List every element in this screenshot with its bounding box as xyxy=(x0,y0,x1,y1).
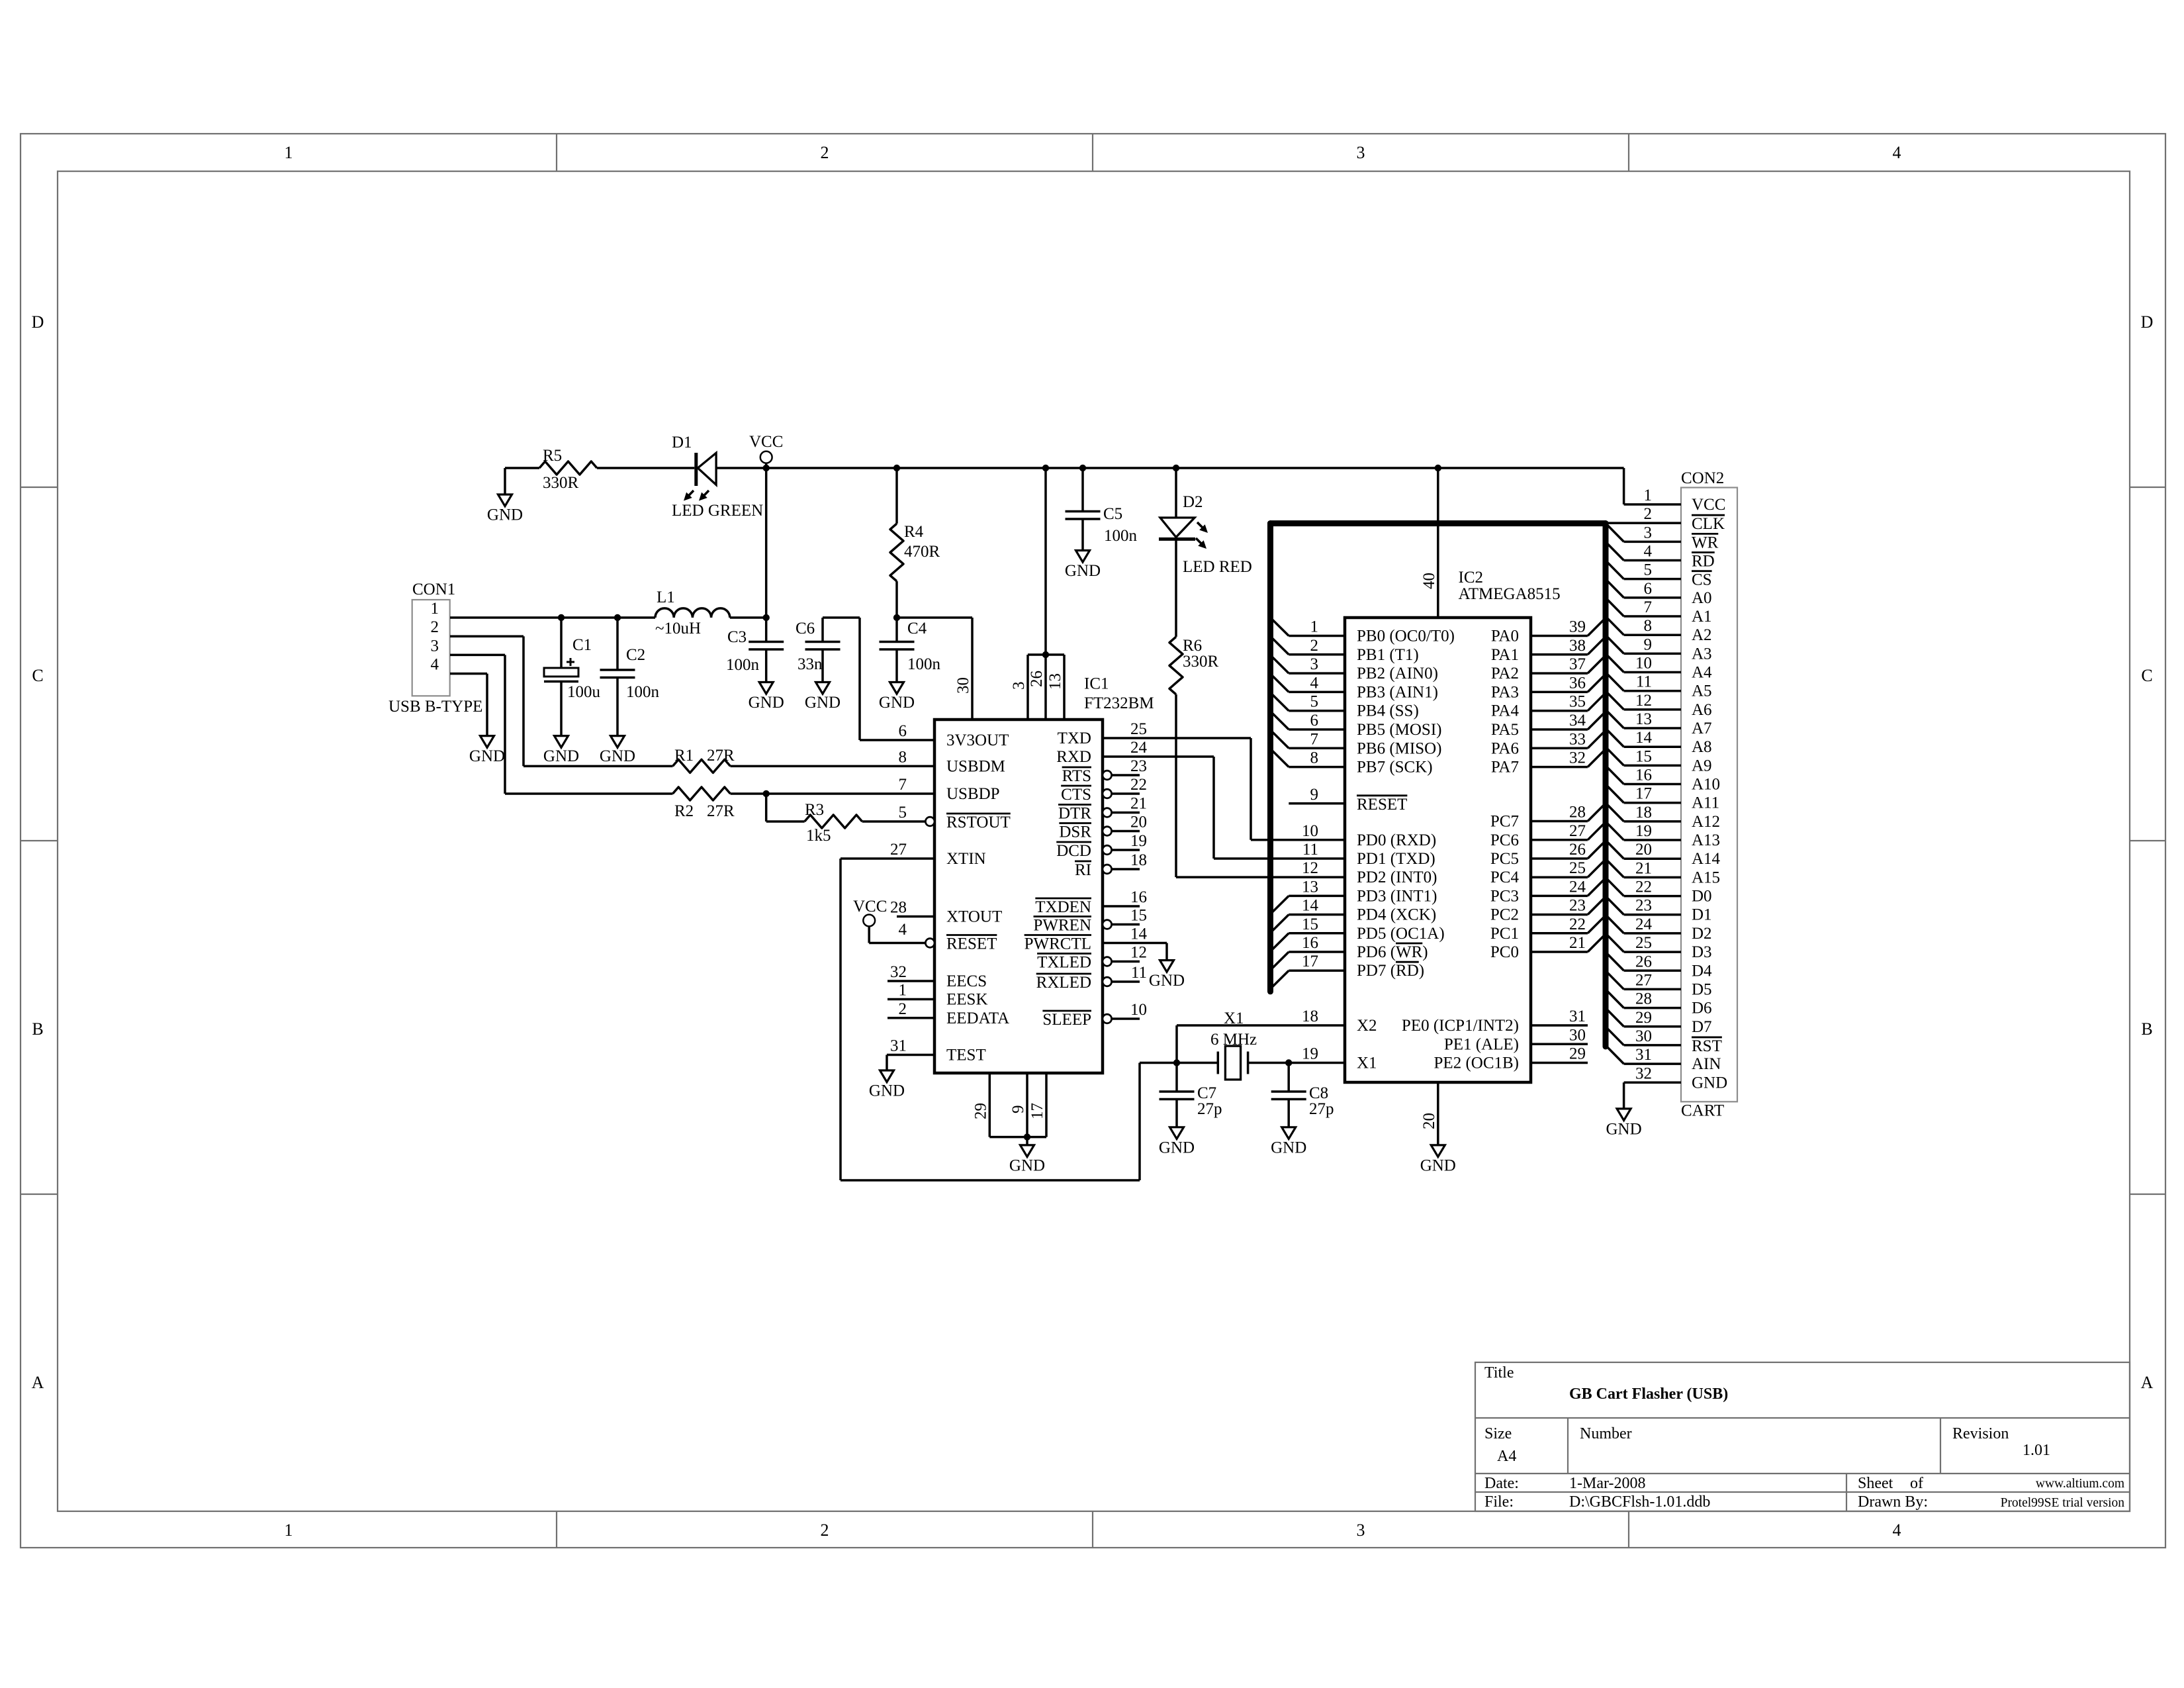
svg-text:GND: GND xyxy=(1692,1074,1727,1092)
svg-text:12: 12 xyxy=(1302,859,1318,877)
svg-text:EESK: EESK xyxy=(946,991,988,1009)
svg-text:Title: Title xyxy=(1484,1364,1514,1382)
svg-text:330R: 330R xyxy=(543,474,579,492)
svg-text:3V3OUT: 3V3OUT xyxy=(946,731,1009,749)
svg-text:PA3: PA3 xyxy=(1491,683,1519,701)
svg-text:D2: D2 xyxy=(1692,925,1712,943)
svg-text:R5: R5 xyxy=(543,447,562,465)
svg-text:GND: GND xyxy=(1149,972,1185,990)
svg-text:Sheet: Sheet xyxy=(1858,1475,1893,1492)
svg-text:FT232BM: FT232BM xyxy=(1084,694,1154,712)
svg-text:RTS: RTS xyxy=(1062,767,1091,785)
svg-text:GND: GND xyxy=(543,747,579,765)
svg-text:3: 3 xyxy=(1644,524,1653,541)
svg-text:15: 15 xyxy=(1302,915,1318,933)
svg-text:R2: R2 xyxy=(674,802,694,820)
svg-text:6: 6 xyxy=(1310,712,1319,729)
svg-text:15: 15 xyxy=(1130,907,1147,925)
svg-text:20: 20 xyxy=(1130,814,1147,831)
svg-text:A12: A12 xyxy=(1692,813,1720,831)
svg-text:18: 18 xyxy=(1635,804,1652,821)
svg-text:26: 26 xyxy=(1635,953,1652,970)
svg-text:4: 4 xyxy=(1644,543,1653,561)
svg-text:29: 29 xyxy=(972,1103,989,1119)
svg-text:26: 26 xyxy=(1028,671,1046,687)
svg-text:12: 12 xyxy=(1130,944,1147,962)
svg-text:8: 8 xyxy=(1644,617,1653,635)
svg-text:C8: C8 xyxy=(1309,1084,1328,1102)
svg-text:VCC: VCC xyxy=(1692,496,1725,514)
svg-text:3: 3 xyxy=(1357,143,1365,162)
svg-text:3: 3 xyxy=(1010,682,1028,690)
svg-text:PD5 (OC1A): PD5 (OC1A) xyxy=(1357,925,1445,943)
svg-text:~10uH: ~10uH xyxy=(655,620,701,637)
svg-text:CON1: CON1 xyxy=(412,581,455,598)
svg-text:9: 9 xyxy=(1644,635,1653,653)
svg-text:A3: A3 xyxy=(1692,645,1712,663)
svg-text:C: C xyxy=(2141,666,2152,685)
svg-text:40: 40 xyxy=(1420,573,1438,589)
svg-text:6 MHz: 6 MHz xyxy=(1210,1031,1257,1049)
svg-text:C7: C7 xyxy=(1197,1084,1216,1102)
svg-text:27R: 27R xyxy=(707,802,735,820)
svg-text:33: 33 xyxy=(1569,730,1586,748)
svg-text:RESET: RESET xyxy=(1357,796,1407,814)
svg-text:27R: 27R xyxy=(707,747,735,765)
svg-text:PD3 (INT1): PD3 (INT1) xyxy=(1357,887,1437,905)
svg-text:4: 4 xyxy=(1893,1521,1901,1540)
svg-text:C5: C5 xyxy=(1103,505,1122,523)
svg-text:A: A xyxy=(2141,1373,2154,1392)
svg-text:PC5: PC5 xyxy=(1490,850,1519,868)
svg-text:32: 32 xyxy=(1569,749,1586,767)
svg-text:CON2: CON2 xyxy=(1681,469,1724,487)
svg-text:PD2 (INT0): PD2 (INT0) xyxy=(1357,868,1437,886)
svg-text:X1: X1 xyxy=(1357,1055,1377,1072)
svg-text:470R: 470R xyxy=(904,543,940,561)
svg-text:PD6 (WR): PD6 (WR) xyxy=(1357,943,1428,961)
svg-text:GND: GND xyxy=(869,1082,905,1100)
svg-text:PA2: PA2 xyxy=(1491,665,1519,682)
svg-text:31: 31 xyxy=(890,1037,907,1055)
svg-text:17: 17 xyxy=(1028,1103,1046,1119)
svg-text:31: 31 xyxy=(1569,1008,1586,1025)
svg-text:A14: A14 xyxy=(1692,850,1721,868)
svg-text:37: 37 xyxy=(1569,655,1586,673)
svg-text:28: 28 xyxy=(890,899,907,917)
svg-text:4: 4 xyxy=(1310,674,1319,692)
svg-text:19: 19 xyxy=(1302,1045,1318,1063)
svg-text:PA5: PA5 xyxy=(1491,721,1519,739)
svg-text:26: 26 xyxy=(1569,841,1586,859)
svg-text:D0: D0 xyxy=(1692,888,1712,906)
svg-text:A4: A4 xyxy=(1497,1448,1516,1465)
svg-text:D7: D7 xyxy=(1692,1018,1712,1036)
svg-text:PC6: PC6 xyxy=(1490,831,1519,849)
svg-text:GND: GND xyxy=(1606,1120,1642,1138)
svg-text:PB0 (OC0/T0): PB0 (OC0/T0) xyxy=(1357,628,1455,645)
svg-text:3: 3 xyxy=(431,637,439,655)
svg-text:4: 4 xyxy=(1893,143,1901,162)
svg-text:GB Cart Flasher (USB): GB Cart Flasher (USB) xyxy=(1569,1385,1728,1403)
svg-text:33n: 33n xyxy=(797,655,823,673)
svg-text:3: 3 xyxy=(1357,1521,1365,1540)
svg-text:PC1: PC1 xyxy=(1490,925,1519,943)
svg-text:22: 22 xyxy=(1569,915,1586,933)
svg-text:PE0 (ICP1/INT2): PE0 (ICP1/INT2) xyxy=(1402,1017,1519,1035)
svg-text:32: 32 xyxy=(890,963,907,981)
svg-text:VCC: VCC xyxy=(853,898,887,915)
svg-text:A4: A4 xyxy=(1692,664,1712,682)
svg-text:WR: WR xyxy=(1692,534,1719,551)
svg-text:A: A xyxy=(32,1373,44,1392)
svg-text:24: 24 xyxy=(1635,915,1653,933)
svg-text:7: 7 xyxy=(899,776,907,794)
svg-text:A1: A1 xyxy=(1692,608,1712,626)
svg-text:11: 11 xyxy=(1636,673,1652,691)
svg-text:4: 4 xyxy=(431,656,439,674)
svg-text:TEST: TEST xyxy=(946,1047,986,1064)
svg-text:PA1: PA1 xyxy=(1491,646,1519,664)
svg-text:1: 1 xyxy=(285,143,293,162)
svg-text:C1: C1 xyxy=(572,636,592,654)
svg-text:D3: D3 xyxy=(1692,943,1712,961)
svg-text:GND: GND xyxy=(1271,1139,1306,1156)
svg-text:17: 17 xyxy=(1635,785,1652,803)
svg-text:RD: RD xyxy=(1692,553,1715,571)
svg-text:Protel99SE trial version: Protel99SE trial version xyxy=(2001,1496,2125,1510)
svg-text:18: 18 xyxy=(1302,1008,1318,1025)
svg-text:8: 8 xyxy=(1310,749,1319,767)
svg-text:17: 17 xyxy=(1302,953,1318,970)
svg-text:32: 32 xyxy=(1635,1064,1652,1082)
svg-text:RXD: RXD xyxy=(1056,748,1091,766)
svg-text:24: 24 xyxy=(1130,739,1148,757)
svg-text:9: 9 xyxy=(1310,786,1319,804)
svg-text:X2: X2 xyxy=(1357,1017,1377,1035)
svg-text:28: 28 xyxy=(1635,990,1652,1008)
svg-text:1k5: 1k5 xyxy=(806,827,831,845)
svg-text:3: 3 xyxy=(1310,655,1319,673)
svg-text:GND: GND xyxy=(805,694,841,712)
svg-text:PB7 (SCK): PB7 (SCK) xyxy=(1357,759,1433,776)
svg-text:2: 2 xyxy=(899,1000,907,1018)
svg-text:LED RED: LED RED xyxy=(1183,558,1252,576)
svg-text:330R: 330R xyxy=(1183,653,1219,671)
svg-text:Number: Number xyxy=(1580,1425,1632,1442)
svg-text:A13: A13 xyxy=(1692,831,1720,849)
svg-text:A2: A2 xyxy=(1692,626,1712,644)
svg-text:7: 7 xyxy=(1310,730,1319,748)
svg-text:34: 34 xyxy=(1569,712,1586,729)
svg-text:18: 18 xyxy=(1130,851,1147,869)
svg-text:GND: GND xyxy=(879,694,915,712)
svg-text:PB4 (SS): PB4 (SS) xyxy=(1357,702,1419,720)
svg-text:38: 38 xyxy=(1569,637,1586,655)
svg-text:GND: GND xyxy=(487,506,523,524)
svg-text:XTOUT: XTOUT xyxy=(946,908,1002,926)
svg-text:7: 7 xyxy=(1644,598,1653,616)
svg-text:Date:: Date: xyxy=(1484,1475,1519,1492)
svg-text:EECS: EECS xyxy=(946,972,987,990)
svg-text:GND: GND xyxy=(749,694,784,712)
svg-text:1: 1 xyxy=(285,1521,293,1540)
svg-text:100n: 100n xyxy=(626,683,660,701)
svg-text:D: D xyxy=(32,312,44,332)
svg-text:www.altium.com: www.altium.com xyxy=(2036,1477,2124,1491)
svg-text:19: 19 xyxy=(1130,832,1147,850)
svg-text:1: 1 xyxy=(1644,487,1653,504)
svg-text:C3: C3 xyxy=(727,628,747,646)
svg-text:RESET: RESET xyxy=(946,935,997,953)
svg-text:27: 27 xyxy=(1569,822,1586,840)
svg-text:PD7 (RD): PD7 (RD) xyxy=(1357,962,1424,980)
svg-text:1-Mar-2008: 1-Mar-2008 xyxy=(1569,1475,1646,1492)
svg-text:LED GREEN: LED GREEN xyxy=(672,502,763,520)
svg-text:21: 21 xyxy=(1635,859,1652,877)
svg-text:RI: RI xyxy=(1075,861,1091,879)
svg-text:of: of xyxy=(1910,1475,1923,1492)
svg-text:21: 21 xyxy=(1569,934,1586,952)
svg-text:2: 2 xyxy=(821,143,829,162)
svg-text:29: 29 xyxy=(1569,1045,1586,1063)
svg-text:39: 39 xyxy=(1569,618,1586,636)
svg-text:28: 28 xyxy=(1569,804,1586,821)
svg-text:8: 8 xyxy=(899,748,907,766)
svg-text:15: 15 xyxy=(1635,747,1652,765)
svg-text:R6: R6 xyxy=(1183,637,1202,655)
svg-text:Drawn By:: Drawn By: xyxy=(1858,1493,1928,1511)
svg-text:2: 2 xyxy=(431,618,439,636)
svg-text:PC0: PC0 xyxy=(1490,943,1519,961)
svg-text:23: 23 xyxy=(1635,897,1652,915)
svg-text:PC7: PC7 xyxy=(1490,813,1519,831)
svg-text:RST: RST xyxy=(1692,1037,1722,1055)
svg-text:PB5 (MOSI): PB5 (MOSI) xyxy=(1357,721,1442,739)
svg-text:IC2: IC2 xyxy=(1459,569,1484,586)
svg-text:GND: GND xyxy=(469,747,505,765)
svg-text:A7: A7 xyxy=(1692,720,1712,737)
svg-text:ATMEGA8515: ATMEGA8515 xyxy=(1459,585,1561,603)
svg-text:A10: A10 xyxy=(1692,776,1720,794)
svg-text:16: 16 xyxy=(1635,767,1652,784)
svg-text:C2: C2 xyxy=(626,646,645,664)
svg-text:USBDP: USBDP xyxy=(946,785,1000,803)
svg-text:A8: A8 xyxy=(1692,738,1712,756)
svg-text:PE2 (OC1B): PE2 (OC1B) xyxy=(1434,1055,1519,1072)
svg-text:10: 10 xyxy=(1635,655,1652,673)
svg-text:2: 2 xyxy=(1644,505,1653,523)
svg-text:D:\GBCFlsh-1.01.ddb: D:\GBCFlsh-1.01.ddb xyxy=(1569,1493,1710,1511)
svg-text:CART: CART xyxy=(1681,1102,1724,1120)
svg-text:A15: A15 xyxy=(1692,868,1720,886)
svg-text:D5: D5 xyxy=(1692,980,1712,998)
svg-text:PC4: PC4 xyxy=(1490,868,1520,886)
svg-text:R4: R4 xyxy=(904,523,924,541)
svg-text:19: 19 xyxy=(1635,822,1652,840)
svg-text:TXDEN: TXDEN xyxy=(1035,898,1091,916)
svg-text:R1: R1 xyxy=(674,747,694,765)
svg-text:GND: GND xyxy=(1065,562,1101,580)
svg-text:D1: D1 xyxy=(672,434,692,451)
svg-text:USB B-TYPE: USB B-TYPE xyxy=(388,698,482,716)
svg-text:16: 16 xyxy=(1302,934,1318,952)
svg-text:1.01: 1.01 xyxy=(2023,1442,2050,1459)
svg-text:25: 25 xyxy=(1130,720,1147,738)
svg-text:12: 12 xyxy=(1635,692,1652,710)
svg-text:29: 29 xyxy=(1635,1009,1652,1027)
svg-text:R3: R3 xyxy=(805,801,824,819)
svg-text:D: D xyxy=(2141,312,2154,332)
svg-text:TXD: TXD xyxy=(1058,729,1091,747)
svg-text:PD1 (TXD): PD1 (TXD) xyxy=(1357,850,1435,868)
svg-text:L1: L1 xyxy=(657,588,675,606)
svg-text:CTS: CTS xyxy=(1061,786,1091,804)
svg-text:GND: GND xyxy=(1159,1139,1195,1156)
svg-text:22: 22 xyxy=(1130,776,1147,794)
svg-text:CLK: CLK xyxy=(1692,515,1725,533)
svg-text:PA7: PA7 xyxy=(1491,759,1519,776)
svg-text:36: 36 xyxy=(1569,674,1586,692)
svg-text:10: 10 xyxy=(1130,1001,1147,1019)
svg-text:C6: C6 xyxy=(796,620,815,637)
svg-text:100n: 100n xyxy=(726,656,760,674)
svg-text:EEDATA: EEDATA xyxy=(946,1009,1009,1027)
svg-text:CS: CS xyxy=(1692,571,1712,589)
svg-text:A0: A0 xyxy=(1692,589,1712,607)
svg-text:A9: A9 xyxy=(1692,757,1712,774)
svg-text:2: 2 xyxy=(1310,637,1319,655)
svg-text:PB1 (T1): PB1 (T1) xyxy=(1357,646,1419,664)
svg-text:PWRCTL: PWRCTL xyxy=(1024,935,1091,953)
svg-text:9: 9 xyxy=(1009,1105,1027,1114)
svg-text:5: 5 xyxy=(1644,561,1653,579)
svg-text:20: 20 xyxy=(1420,1113,1438,1129)
svg-text:GND: GND xyxy=(1420,1156,1456,1174)
svg-text:USBDM: USBDM xyxy=(946,757,1005,775)
svg-text:GND: GND xyxy=(1009,1156,1045,1174)
svg-text:DSR: DSR xyxy=(1059,823,1091,841)
svg-text:XTIN: XTIN xyxy=(946,850,986,868)
svg-text:PWREN: PWREN xyxy=(1034,917,1092,935)
svg-text:A5: A5 xyxy=(1692,682,1712,700)
svg-text:11: 11 xyxy=(1131,964,1147,982)
svg-text:D6: D6 xyxy=(1692,1000,1712,1017)
svg-text:SLEEP: SLEEP xyxy=(1042,1011,1091,1029)
svg-text:PA6: PA6 xyxy=(1491,739,1519,757)
svg-text:AIN: AIN xyxy=(1692,1055,1721,1073)
svg-text:DTR: DTR xyxy=(1058,805,1091,823)
svg-text:PD4 (XCK): PD4 (XCK) xyxy=(1357,906,1436,924)
svg-text:14: 14 xyxy=(1635,729,1653,747)
svg-text:PE1 (ALE): PE1 (ALE) xyxy=(1444,1035,1519,1053)
svg-text:PD0 (RXD): PD0 (RXD) xyxy=(1357,831,1436,849)
svg-text:PB3 (AIN1): PB3 (AIN1) xyxy=(1357,683,1438,701)
svg-text:27: 27 xyxy=(890,841,907,859)
svg-text:Revision: Revision xyxy=(1952,1425,2009,1442)
svg-text:D2: D2 xyxy=(1183,493,1203,511)
svg-text:B: B xyxy=(2141,1019,2152,1039)
svg-text:11: 11 xyxy=(1302,841,1318,859)
svg-text:2: 2 xyxy=(821,1521,829,1540)
svg-text:21: 21 xyxy=(1130,795,1147,813)
svg-text:100n: 100n xyxy=(907,655,941,673)
svg-text:D4: D4 xyxy=(1692,962,1712,980)
svg-text:6: 6 xyxy=(899,722,907,740)
svg-text:1: 1 xyxy=(899,982,907,1000)
svg-text:TXLED: TXLED xyxy=(1037,954,1091,972)
svg-text:A6: A6 xyxy=(1692,701,1712,719)
svg-text:27: 27 xyxy=(1635,971,1652,989)
svg-text:5: 5 xyxy=(1310,693,1319,711)
svg-text:IC1: IC1 xyxy=(1084,675,1109,693)
svg-text:4: 4 xyxy=(899,921,907,939)
svg-text:A11: A11 xyxy=(1692,794,1719,812)
svg-text:D1: D1 xyxy=(1692,906,1712,924)
svg-text:27p: 27p xyxy=(1309,1100,1334,1118)
svg-text:1: 1 xyxy=(1310,618,1319,636)
svg-text:PA4: PA4 xyxy=(1491,702,1520,720)
svg-text:RSTOUT: RSTOUT xyxy=(946,814,1011,831)
svg-text:13: 13 xyxy=(1302,878,1318,896)
svg-text:13: 13 xyxy=(1635,710,1652,728)
svg-text:27p: 27p xyxy=(1197,1100,1222,1118)
svg-text:5: 5 xyxy=(899,804,907,821)
svg-text:C: C xyxy=(32,666,43,685)
svg-text:VCC: VCC xyxy=(749,433,783,451)
svg-text:23: 23 xyxy=(1569,897,1586,915)
svg-text:100u: 100u xyxy=(567,683,601,701)
svg-text:GND: GND xyxy=(600,747,635,765)
svg-text:DCD: DCD xyxy=(1056,842,1091,860)
svg-text:File:: File: xyxy=(1484,1493,1514,1511)
svg-text:10: 10 xyxy=(1302,822,1318,840)
svg-text:PA0: PA0 xyxy=(1491,628,1519,645)
svg-text:14: 14 xyxy=(1302,897,1319,915)
svg-text:23: 23 xyxy=(1130,757,1147,775)
svg-text:16: 16 xyxy=(1130,888,1147,906)
svg-text:6: 6 xyxy=(1644,580,1653,598)
svg-text:22: 22 xyxy=(1635,878,1652,896)
svg-text:C4: C4 xyxy=(907,620,927,637)
svg-text:30: 30 xyxy=(1569,1026,1586,1044)
svg-text:PC3: PC3 xyxy=(1490,887,1519,905)
svg-text:35: 35 xyxy=(1569,693,1586,711)
svg-text:30: 30 xyxy=(954,677,972,694)
svg-text:PB2 (AIN0): PB2 (AIN0) xyxy=(1357,665,1438,682)
svg-text:30: 30 xyxy=(1635,1027,1652,1045)
svg-text:B: B xyxy=(32,1019,43,1039)
svg-text:24: 24 xyxy=(1569,878,1586,896)
svg-text:13: 13 xyxy=(1046,673,1064,690)
svg-text:25: 25 xyxy=(1569,859,1586,877)
svg-text:1: 1 xyxy=(431,600,439,618)
svg-text:100n: 100n xyxy=(1104,527,1138,545)
svg-text:Size: Size xyxy=(1484,1425,1512,1442)
svg-text:31: 31 xyxy=(1635,1046,1652,1064)
svg-text:PC2: PC2 xyxy=(1490,906,1519,924)
svg-text:PB6 (MISO): PB6 (MISO) xyxy=(1357,739,1442,757)
svg-text:20: 20 xyxy=(1635,841,1652,859)
svg-text:14: 14 xyxy=(1130,925,1148,943)
svg-text:RXLED: RXLED xyxy=(1036,974,1091,992)
svg-text:25: 25 xyxy=(1635,934,1652,952)
